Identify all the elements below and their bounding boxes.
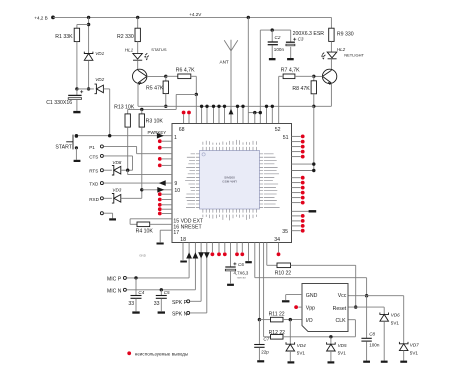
wire IC top pin stub 237.5 — [237, 106, 239, 123]
unused pin stub right 192.6 — [292, 192, 301, 194]
wire pin 17 to ground — [160, 229, 172, 231]
svg-text:HL1: HL1 — [125, 48, 134, 53]
terminal CTS — [100, 154, 103, 157]
junction R5 bottom on bus — [164, 105, 167, 108]
unused pin stub left 194.2 — [162, 193, 172, 195]
wire IC top pin stub 272.3 — [271, 106, 273, 123]
wire VT2 base — [314, 75, 323, 77]
transistor VT1 — [133, 69, 147, 83]
diode VD3 — [112, 194, 114, 204]
ground under C8 — [363, 361, 370, 363]
wire IC top pin stub 219 — [218, 106, 220, 123]
svg-text:неиспользуемые выводы: неиспользуемые выводы — [135, 352, 188, 357]
wire VD3 to pin 10 jog — [121, 197, 142, 199]
wire VBAT pin right b — [292, 170, 314, 172]
svg-text:R5 47K: R5 47K — [146, 85, 164, 91]
unused pin stub bottom 278.5 — [278, 243, 280, 253]
wire IC top pin stub 266.5 — [266, 106, 268, 123]
ground under START — [74, 160, 81, 162]
unused pin stub right 220.9 — [292, 220, 301, 222]
svg-text:R7 4,7K: R7 4,7K — [281, 68, 300, 74]
unused pin stub left 147.7 — [162, 147, 172, 149]
svg-text:33: 33 — [128, 301, 134, 307]
resistor R3 10K — [141, 109, 143, 114]
svg-text:+4.2V: +4.2V — [189, 12, 202, 17]
capacitor C8 100n — [366, 296, 368, 338]
wire IC top pin stub 213.5 — [213, 106, 215, 123]
svg-text:R4 10K: R4 10K — [136, 228, 154, 234]
svg-text:VD3: VD3 — [112, 188, 121, 193]
svg-text:C1 330X16: C1 330X16 — [46, 100, 72, 106]
pushbutton START — [75, 135, 78, 138]
wire TXD to pin 9 — [104, 182, 172, 184]
wire R7 left to IC pin — [279, 75, 283, 77]
wire C1/VD1/VD2 node — [77, 88, 94, 90]
svg-text:R2 330: R2 330 — [117, 34, 134, 40]
op-amp U1 GSM module box — [172, 124, 292, 243]
unused pin stub left 199.5 — [162, 199, 172, 201]
wire R1 bottom — [76, 42, 78, 89]
resistor R6 4.7K — [166, 75, 178, 77]
capacitor C7 22p — [258, 320, 260, 345]
svg-text:VD5: VD5 — [338, 343, 347, 348]
wire VD1 column from rail — [88, 17, 90, 53]
ground under VD4 — [288, 361, 295, 363]
svg-text:1: 1 — [174, 135, 177, 141]
junction C4 top — [134, 276, 137, 279]
transistor VT2 — [322, 69, 336, 83]
resistor R5 47K — [165, 76, 167, 81]
wire SPK N line — [187, 311, 190, 314]
ground SIM GND — [282, 300, 290, 302]
svg-text:R10 22: R10 22 — [275, 271, 292, 277]
svg-text:R3 10K: R3 10K — [146, 118, 164, 124]
capacitor C6 4.7X6.3 — [230, 243, 232, 267]
svg-text:P1: P1 — [89, 145, 95, 150]
unused pin stub top a — [183, 115, 185, 124]
svg-text:Vpp: Vpp — [306, 306, 315, 312]
unused pin stub left 204.8 — [162, 204, 172, 206]
svg-text:C5: C5 — [164, 290, 170, 295]
junction Reset — [354, 305, 357, 308]
svg-text:VD6: VD6 — [391, 313, 400, 318]
junction on rail at VD1 branch — [87, 16, 90, 19]
arrow SPK N pin — [204, 252, 210, 258]
junction Vcc — [365, 294, 368, 297]
wire VD2 to PWRKEY column — [103, 88, 109, 90]
svg-text:HL2: HL2 — [337, 47, 346, 52]
wire R2 to HL1 — [137, 42, 139, 54]
junction RXD/R3/pin10 — [140, 188, 143, 191]
ground under spare terminal — [109, 218, 116, 220]
junction VD5 top — [329, 335, 332, 338]
wire IC top pin stub 224.5 — [224, 106, 226, 123]
svg-text:C4: C4 — [138, 290, 144, 295]
svg-text:+4,2 В: +4,2 В — [34, 15, 47, 20]
capacitor C5 33 — [160, 290, 162, 295]
svg-text:51: 51 — [283, 135, 289, 141]
wire START to ground — [75, 148, 77, 160]
unused pin stub bottom 212.4 — [211, 243, 213, 253]
junction R3 top — [140, 108, 143, 111]
wire SIM data line — [258, 243, 260, 320]
capacitor C2 100n — [271, 30, 273, 42]
resistor R12 22 — [271, 335, 284, 340]
svg-text:C7: C7 — [263, 337, 269, 342]
wire PWRKEY line — [76, 135, 172, 137]
unused pin stub left 209.2 — [162, 208, 172, 210]
svg-text:CTS: CTS — [89, 154, 98, 159]
svg-text:100n: 100n — [274, 47, 285, 52]
wire pin 15 to R4 — [130, 218, 172, 220]
ground dash right pin — [309, 210, 317, 212]
unused pin stub right 141.6 — [292, 141, 301, 143]
terminal TXD — [100, 182, 103, 185]
terminal spare to ground — [100, 212, 103, 215]
junction C1 top — [75, 87, 78, 90]
svg-text:Reset: Reset — [333, 306, 347, 312]
LED HL1 — [133, 53, 143, 59]
wire +4.2V drop to IC — [247, 17, 249, 123]
capacitor C3 200X6.3 ESR — [290, 30, 292, 42]
wire VD1 bottom — [88, 60, 90, 89]
wire R12 to CLK loop — [283, 336, 355, 338]
junction R7/R8/base — [312, 75, 315, 78]
svg-text:18: 18 — [180, 237, 186, 243]
junction VD4 top — [289, 318, 292, 321]
svg-text:тантал: тантал — [237, 275, 247, 279]
wire pin right dash stub — [292, 210, 309, 212]
unused pin stub top b — [188, 115, 190, 124]
ground under C6 — [227, 284, 234, 286]
svg-text:5V1: 5V1 — [338, 351, 347, 356]
svg-text:52: 52 — [275, 127, 281, 133]
svg-text:VD7: VD7 — [410, 343, 419, 348]
resistor R2 330 — [135, 28, 140, 41]
legend unused pins — [127, 351, 131, 355]
svg-text:10: 10 — [174, 188, 180, 194]
arrow MIC P pin — [186, 252, 192, 258]
wire CLK riser — [354, 320, 356, 337]
diode VD1 — [84, 52, 93, 54]
svg-text:NETLIGHT: NETLIGHT — [344, 52, 364, 57]
svg-text:SPK N: SPK N — [172, 311, 188, 317]
ground under C7 — [257, 360, 264, 362]
svg-text:5V1: 5V1 — [297, 351, 306, 356]
arrow SPK P pin — [198, 252, 204, 258]
svg-text:Vcc: Vcc — [338, 293, 347, 299]
svg-text:MIC N: MIC N — [107, 288, 122, 294]
svg-text:5V1: 5V1 — [410, 350, 419, 355]
terminal RTS — [100, 169, 103, 172]
resistor R9 330 — [329, 28, 334, 41]
wire VT2 emitter — [330, 83, 332, 106]
zener VD4 5V1 — [289, 320, 291, 345]
unused pin stub left 213.5 — [162, 213, 172, 215]
wire RTS node into IC — [127, 170, 129, 174]
junction VD2 feed — [108, 134, 111, 137]
wire RXD to VD3 — [103, 197, 112, 199]
svg-text:RXD: RXD — [89, 197, 99, 202]
ground pin 17 — [157, 243, 164, 245]
svg-text:R8 47K: R8 47K — [292, 86, 310, 92]
junction VD1 bottom — [87, 87, 90, 90]
svg-text:R6 4,7K: R6 4,7K — [176, 67, 195, 73]
unused pin stub right 146.6 — [292, 146, 301, 148]
diode VD8 — [112, 165, 114, 175]
QFP package body — [200, 151, 260, 210]
svg-text:17: 17 — [173, 230, 179, 236]
junction RTS/R13 — [126, 169, 129, 172]
terminal P1 — [100, 145, 103, 148]
svg-text:START: START — [55, 144, 72, 150]
ground under VD7 — [400, 361, 407, 363]
svg-text:35: 35 — [282, 229, 288, 235]
svg-text:R13 10K: R13 10K — [114, 105, 135, 111]
wire IC top pin stub 201.6 — [201, 106, 203, 123]
ground under C3 — [287, 58, 294, 60]
unused pin stub right 202.6 — [292, 202, 301, 204]
arrow on ANT feed — [229, 109, 234, 115]
svg-text:VD8: VD8 — [112, 160, 121, 165]
svg-text:SPK P: SPK P — [172, 300, 188, 306]
wire P1 to pin 4 — [104, 145, 137, 147]
unused pin stub right 215.9 — [292, 215, 301, 217]
arrow into pin 10 — [157, 187, 164, 193]
ground under C4 — [132, 311, 139, 313]
unused pin stub right 187.6 — [292, 187, 301, 189]
unused pin stub right 151.6 — [292, 151, 301, 153]
wire VBAT pin right a — [292, 163, 314, 165]
wire dash pin stub — [248, 243, 250, 261]
svg-text:GSM ЧИП: GSM ЧИП — [222, 179, 236, 183]
svg-text:R9 330: R9 330 — [337, 31, 354, 37]
junction bus2 stub — [253, 111, 256, 114]
unused pin stub bottom 242.3 — [241, 243, 243, 253]
wire VSIM line to SIM Vcc — [254, 243, 256, 278]
wire VBAT bus1 drop right side — [313, 106, 315, 170]
wire R11 to I/O — [283, 319, 302, 321]
wire MIC N line — [123, 288, 126, 291]
resistor R1 33K — [74, 28, 79, 41]
wire IC bottom ground stub — [182, 243, 184, 260]
svg-text:33: 33 — [154, 301, 160, 307]
unused pin stub bottom 219 — [218, 243, 220, 253]
zener VD6 5V1 — [383, 307, 385, 314]
arrow out of pin 9 — [159, 180, 166, 186]
unused pin stub right 182.6 — [292, 182, 301, 184]
arrow MIC N pin — [193, 252, 199, 258]
unused pin stub left 165.4 — [162, 164, 172, 166]
diode VD2 — [95, 84, 97, 94]
wire R10 to Reset — [291, 264, 356, 266]
svg-text:VD4: VD4 — [297, 343, 306, 348]
wire R3 bottom to RXD node — [141, 127, 143, 190]
LED HL2 — [327, 52, 337, 58]
svg-text:C8: C8 — [369, 331, 375, 336]
wire IC top pin stub 243 — [242, 106, 244, 123]
resistor R13 10K — [127, 109, 129, 114]
unused pin stub right 177.7 — [292, 177, 301, 179]
ground under IC bottom stub — [180, 261, 187, 263]
junction START top — [75, 134, 78, 137]
antenna ANT — [230, 40, 232, 124]
wire pullup bus — [128, 108, 177, 110]
wire R6 right — [191, 75, 197, 77]
ground under VD5 — [328, 361, 335, 363]
ground under VD6 — [381, 361, 388, 363]
svg-text:STATUS: STATUS — [151, 47, 167, 52]
svg-text:VD1: VD1 — [95, 51, 104, 56]
wire R6 net to pullup bus — [176, 93, 196, 95]
wire HL1 to VT1 collector — [137, 60, 139, 70]
wire R9 to HL2 — [330, 41, 332, 52]
resistor R10 22 — [277, 263, 291, 268]
zener VD5 5V1 — [330, 337, 332, 344]
junction R11/C7 — [258, 318, 261, 321]
QFP pin ticks — [185, 140, 280, 221]
unused pin stub right 230.7 — [292, 230, 301, 232]
svg-text:MIC P: MIC P — [107, 276, 122, 282]
junction bus2 C2 drop — [259, 111, 262, 114]
resistor R8 47K — [313, 76, 315, 81]
capacitor C4 33 — [135, 278, 137, 295]
junction R8 bottom on bus — [312, 105, 315, 108]
wire SIM GND to ground — [286, 294, 302, 296]
svg-text:PWRKEY: PWRKEY — [148, 130, 167, 135]
ground under C2 — [269, 58, 276, 60]
wire R6 net into IC pin — [195, 94, 197, 123]
junction R6 net — [195, 93, 198, 96]
resistor R4 10K — [137, 222, 150, 227]
svg-text:GND: GND — [139, 253, 147, 257]
wire +4.2V rail — [53, 16, 331, 18]
svg-text:VD2: VD2 — [95, 77, 104, 82]
wire CTS — [104, 155, 133, 157]
svg-text:68: 68 — [179, 127, 185, 133]
wire backup rail — [260, 29, 290, 31]
svg-text:200X6.3 ESR: 200X6.3 ESR — [293, 31, 325, 37]
SIM card holder X1 — [302, 284, 348, 332]
wire R4 to pin 16 — [150, 223, 172, 225]
wire SIM clock line — [263, 243, 265, 337]
svg-text:I/O: I/O — [306, 318, 313, 324]
ground under C1 — [73, 111, 80, 113]
svg-text:9: 9 — [174, 181, 177, 187]
terminal RXD — [100, 197, 103, 200]
wire IC top pin stub 207 — [206, 106, 208, 123]
wire backup bus2 — [248, 112, 260, 114]
unused pin stub bottom 237 — [236, 243, 238, 253]
wire backup rail drop to IC — [259, 30, 261, 123]
svg-text:100n: 100n — [369, 343, 380, 348]
unused pin stub left 141.2 — [162, 140, 172, 142]
junction R1 top jog — [87, 23, 90, 26]
wire Vcc line — [348, 295, 404, 297]
wire MIC P line — [123, 276, 126, 279]
svg-text:C6: C6 — [238, 262, 244, 267]
junction on rail at R2 branch — [136, 16, 139, 19]
wire RTS to VD8 — [103, 169, 112, 171]
unused pin stub left 158.9 — [162, 158, 172, 160]
wire SPK P line — [187, 300, 190, 303]
zener VD7 5V1 — [403, 296, 405, 344]
capacitor C1 330X16 — [76, 89, 78, 95]
wire VBAT bus1 — [138, 105, 314, 107]
svg-text:R11 22: R11 22 — [269, 312, 285, 318]
svg-text:C2: C2 — [275, 35, 281, 40]
junction C2 top — [271, 28, 274, 31]
arrow into pin 1 — [157, 133, 164, 139]
unused pin stub bottom 224.8 — [224, 243, 226, 253]
junction C5 top — [160, 288, 163, 291]
resistor R7 4.7K — [283, 74, 295, 79]
wire VT1 emitter to bus — [137, 83, 139, 106]
resistor R11 22 — [259, 319, 270, 321]
ground under C5 — [158, 311, 165, 313]
wire rail to R9 — [330, 17, 332, 28]
unused pin stub right 136.4 — [292, 135, 301, 137]
wire Reset line — [348, 306, 384, 308]
unused pin stub right 225.9 — [292, 225, 301, 227]
wire HL2 to VT2 — [330, 59, 332, 70]
unused pin stub right 197.6 — [292, 197, 301, 199]
wire VT1 base — [147, 75, 166, 77]
unused Vpp stub — [298, 306, 302, 308]
svg-text:5V1: 5V1 — [391, 320, 400, 325]
svg-text:34: 34 — [274, 237, 280, 243]
svg-text:C3: C3 — [298, 37, 304, 42]
wire R13 bottom to RTS node — [127, 127, 129, 170]
junction on rail at VBAT drop — [247, 16, 250, 19]
svg-text:R1 33K: R1 33K — [55, 34, 73, 40]
svg-text:22p: 22p — [261, 350, 269, 355]
wire IC top pin stub 254.8 — [254, 113, 256, 124]
wire VD8 to node — [121, 169, 133, 171]
svg-text:R12 22: R12 22 — [269, 330, 286, 336]
svg-text:GND: GND — [306, 293, 318, 299]
ground dash bottom pin — [245, 261, 252, 263]
wire R10 feed — [266, 243, 268, 266]
junction base/R5/R6 — [164, 75, 167, 78]
svg-text:RTS: RTS — [89, 169, 98, 174]
svg-text:ANT: ANT — [220, 60, 229, 65]
wire into pin 10 — [142, 189, 172, 191]
unused pin stub right 156.6 — [292, 156, 301, 158]
wire R1 top jog — [77, 24, 89, 26]
wire R2 top — [137, 17, 139, 28]
svg-text:CLK: CLK — [336, 318, 347, 324]
svg-text:TXD: TXD — [89, 182, 99, 187]
